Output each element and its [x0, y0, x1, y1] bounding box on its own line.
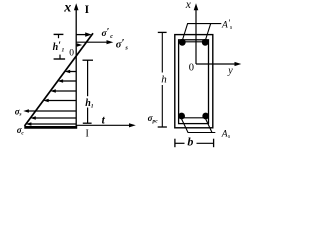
- svg-text:x: x: [185, 0, 192, 11]
- svg-text:σ′c: σ′c: [102, 28, 114, 40]
- svg-text:I: I: [85, 4, 90, 16]
- svg-text:t: t: [102, 115, 106, 127]
- svg-text:b: b: [187, 135, 193, 149]
- svg-text:As: As: [221, 130, 231, 141]
- svg-text:σc: σc: [17, 125, 25, 136]
- svg-text:y: y: [227, 65, 233, 76]
- svg-text:I: I: [86, 128, 89, 139]
- svg-text:h: h: [161, 73, 167, 85]
- svg-text:σ′s: σ′s: [116, 38, 129, 52]
- svg-text:σs: σs: [15, 106, 22, 117]
- svg-text:A′s: A′s: [221, 19, 233, 31]
- svg-text:0: 0: [189, 63, 194, 74]
- svg-text:0: 0: [69, 49, 74, 59]
- svg-text:h1: h1: [85, 98, 94, 110]
- svg-text:x: x: [63, 1, 71, 16]
- svg-text:h′1: h′1: [53, 40, 65, 53]
- svg-text:σpc: σpc: [148, 113, 159, 125]
